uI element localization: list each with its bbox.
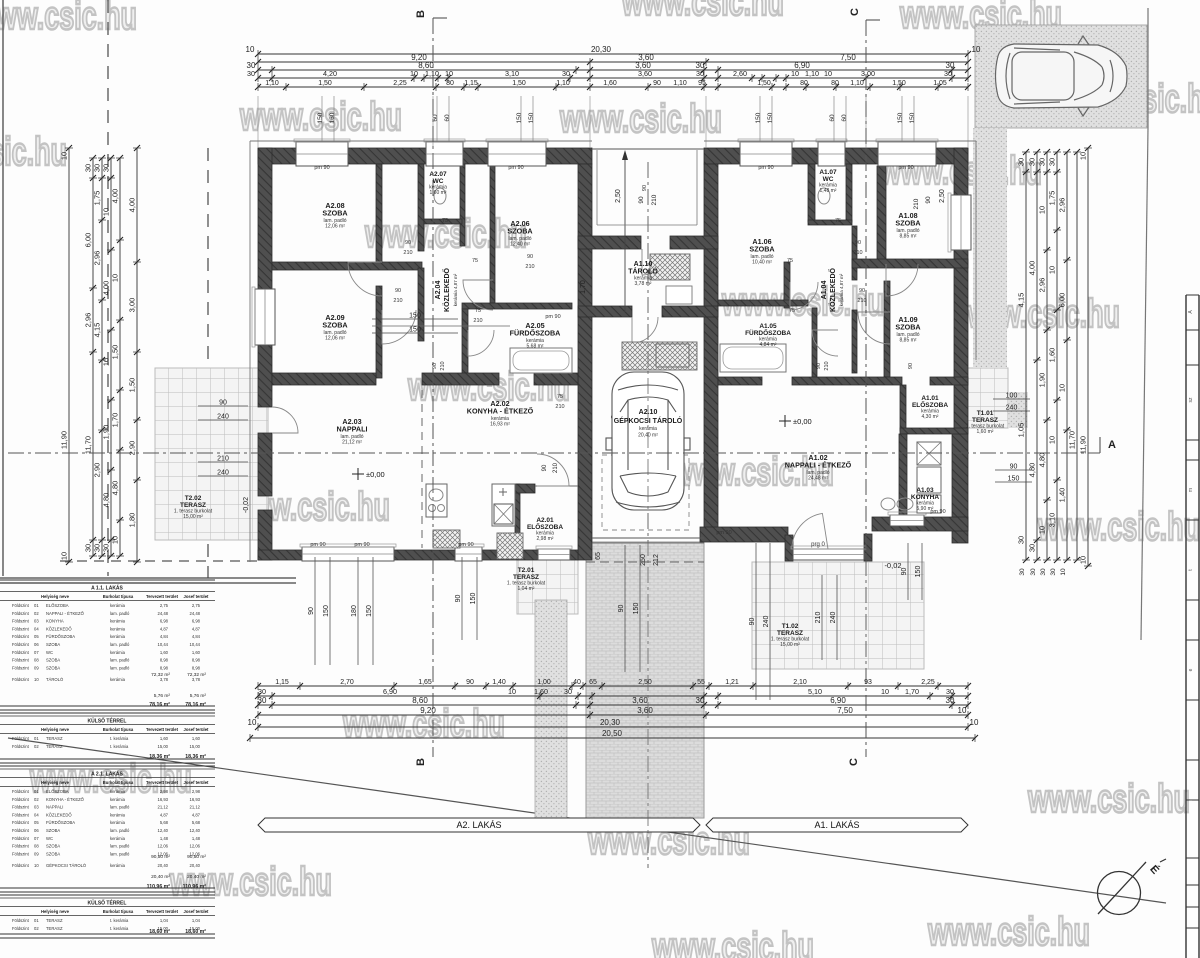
svg-text:7,50: 7,50 [837,706,853,715]
dimension chain right c3 [1038,149,1052,563]
svg-text:240: 240 [217,470,229,477]
section line A over plan [8,452,1100,454]
svg-text:4,00: 4,00 [102,281,111,296]
svg-text:lam. padló: lam. padló [110,828,130,833]
svg-text:150: 150 [470,593,477,605]
svg-text:kerámia 4,87 m²: kerámia 4,87 m² [839,273,844,306]
room label T1.02 [771,623,810,648]
dimension chain bottom row6 [247,729,978,742]
svg-text:1,50: 1,50 [318,80,332,87]
dimension chain right c1 [1017,149,1031,563]
wall A1.01 left [900,385,906,431]
svg-text:05: 05 [34,820,39,825]
svg-text:SZOBA: SZOBA [895,323,920,332]
room label A1.10 [628,261,658,287]
svg-text:1,50: 1,50 [892,80,906,87]
wall bottom A2 b [394,550,455,560]
wall WC1 left [808,164,815,222]
boundary dashed x208 [207,148,209,578]
svg-text:lam. padló: lam. padló [110,642,130,647]
wall A2 mid wall a [272,373,376,385]
svg-text:kerámia: kerámia [110,634,126,639]
svg-text:90: 90 [1010,464,1018,471]
svg-text:02: 02 [34,797,39,802]
svg-text:90: 90 [455,595,462,603]
door arc A2.06 [463,280,493,310]
svg-text:KÜLSŐ TÉRREL: KÜLSŐ TÉRREL [88,899,127,907]
svg-text:lam. padló: lam. padló [110,658,130,663]
svg-text:1,04: 1,04 [192,918,201,923]
leader pair A2 w1b [357,557,359,665]
svg-text:Burkolat típusa: Burkolat típusa [103,594,134,599]
svg-text:3,60: 3,60 [632,696,648,705]
svg-text:pm 90: pm 90 [758,165,773,171]
svg-text:11,90: 11,90 [60,431,69,449]
svg-text:Földszint: Földszint [12,677,30,682]
svg-text:Földszint: Földszint [12,611,30,616]
svg-text:10: 10 [1038,526,1047,534]
svg-text:1,60: 1,60 [534,687,548,696]
svg-text:03: 03 [34,805,39,810]
svg-text:10: 10 [1079,152,1088,160]
svg-text:Josef terület: Josef terület [184,727,210,732]
door arc A2.05 [468,330,494,356]
window top w3 [488,142,546,166]
wall A2 mid wall b [422,373,499,385]
basin A2 [599,349,601,351]
svg-text:kerámia: kerámia [110,603,126,608]
svg-text:10: 10 [111,536,120,544]
svg-text:2,60: 2,60 [733,69,747,78]
svg-text:KÖZLEKEDŐ: KÖZLEKEDŐ [46,812,72,817]
svg-text:NAPPALI: NAPPALI [46,805,63,810]
svg-text:TERASZ: TERASZ [46,736,63,741]
svg-text:1,15: 1,15 [275,679,289,686]
svg-text:A: A [1108,439,1116,451]
svg-text:04: 04 [34,626,39,631]
svg-text:1,75: 1,75 [1048,191,1057,206]
svg-text:1,10: 1,10 [805,69,819,78]
dimension chain left c1 [60,145,74,565]
svg-text:Helyiség neve: Helyiség neve [41,594,70,599]
svg-text:10: 10 [1060,568,1067,576]
svg-text:2,98: 2,98 [192,789,201,794]
svg-text:30: 30 [1019,568,1026,576]
svg-text:10: 10 [60,552,69,560]
svg-text:210: 210 [393,298,402,304]
room label T2.01 [507,567,546,592]
svg-text:10: 10 [60,152,69,160]
svg-text:150: 150 [633,603,640,615]
dimension chain bottom row4 [255,706,971,719]
svg-text:210: 210 [853,250,862,256]
svg-text:SZOBA: SZOBA [46,828,60,833]
svg-text:150: 150 [767,112,774,123]
wall bottom A2 d [570,550,578,560]
svg-text:SZOBA: SZOBA [46,665,60,670]
window bot A1 kitchen w [890,515,924,526]
svg-text:30: 30 [562,69,570,78]
svg-text:pm 90: pm 90 [354,542,369,548]
svg-text:pm 90: pm 90 [716,530,731,536]
wall A1.10 top left [578,236,641,249]
svg-text:kerámia: kerámia [110,789,126,794]
door arc A1.05 [812,330,838,356]
svg-text:A2.01: A2.01 [536,517,554,524]
svg-text:90: 90 [466,679,474,686]
svg-text:A 1.1. LAKÁS: A 1.1. LAKÁS [91,585,123,592]
svg-text:1,70: 1,70 [111,413,120,428]
svg-text:20,40 m²: 20,40 m² [151,874,170,880]
svg-text:kerámia: kerámia [110,836,126,841]
svg-text:30: 30 [258,696,267,705]
svg-text:3,60: 3,60 [637,706,653,715]
svg-text:B: B [415,10,427,18]
svg-text:Földszint: Földszint [12,812,30,817]
dimension chain right c6 [1068,149,1082,563]
svg-text:1,21: 1,21 [725,679,739,686]
wall left lower c [258,510,272,560]
svg-text:2,96: 2,96 [1058,198,1067,213]
svg-text:Josef terület: Josef terület [184,909,210,914]
dim pair 210/240 [198,461,248,463]
svg-text:2,25: 2,25 [393,80,407,87]
svg-text:11,90: 11,90 [1079,436,1088,454]
svg-text:24,48 m²: 24,48 m² [808,475,828,481]
svg-text:15,00 m²: 15,00 m² [780,642,800,648]
svg-text:Helyiség neve: Helyiség neve [41,780,70,785]
svg-text:4,84: 4,84 [192,634,201,639]
dimension chain top row3 [247,61,971,74]
wall A1.10 bottom left [578,306,632,317]
door arc A1.06 [790,282,818,310]
svg-text:TÁROLÓ: TÁROLÓ [628,267,658,276]
svg-text:90: 90 [855,240,861,246]
svg-text:www.csic.hu: www.csic.hu [559,97,722,141]
right lot boundary [1141,128,1148,640]
svg-text:90: 90 [638,196,645,204]
svg-text:7,50: 7,50 [840,53,856,62]
svg-text:A1.07: A1.07 [819,169,837,176]
svg-text:Josef terület: Josef terület [184,594,210,599]
svg-text:Tervezett terület: Tervezett terület [146,909,179,914]
svg-text:2,25: 2,25 [921,679,935,686]
svg-text:Földszint: Földszint [12,658,30,663]
svg-text:Burkolat típusa: Burkolat típusa [103,909,134,914]
svg-text:3,10: 3,10 [505,69,519,78]
svg-text:30: 30 [84,164,93,172]
svg-text:t. kerámia: t. kerámia [110,736,129,741]
dimension chain left c6 [128,145,142,565]
svg-text:NAPPALI - ÉTKEZŐ: NAPPALI - ÉTKEZŐ [785,461,852,470]
wall A1 corridor left lower [812,308,817,377]
level marker A1 [779,420,791,422]
garage axis over plan [647,162,649,868]
car top-right (plan view, horizontal) [996,36,1128,116]
svg-text:75: 75 [557,394,563,400]
svg-text:05: 05 [34,634,39,639]
svg-text:20,30: 20,30 [600,718,621,727]
svg-text:1,50: 1,50 [757,80,771,87]
svg-text:WC: WC [46,650,53,655]
svg-text:lam. padló: lam. padló [110,805,130,810]
svg-text:C: C [848,758,860,766]
room label A2.02 [467,399,534,427]
svg-text:75: 75 [472,258,478,264]
svg-text:1,10: 1,10 [425,69,439,78]
svg-text:10: 10 [102,358,111,366]
svg-text:1,48 m²: 1,48 m² [820,188,837,194]
svg-text:150: 150 [323,605,330,617]
svg-text:kerámia: kerámia [110,820,126,825]
svg-text:06: 06 [34,642,39,647]
svg-text:4,84: 4,84 [160,634,169,639]
wall bottom A2 c [482,550,538,560]
svg-text:8,98: 8,98 [192,665,201,670]
wall garage left [578,164,592,560]
svg-text:8,98: 8,98 [192,658,201,663]
svg-text:Burkolat típusa: Burkolat típusa [103,727,134,732]
svg-text:FÜRDŐSZOBA: FÜRDŐSZOBA [510,329,561,338]
svg-text:08: 08 [34,658,39,663]
svg-text:10: 10 [102,208,111,216]
svg-text:210: 210 [824,361,830,370]
svg-text:30: 30 [946,696,955,705]
svg-text:110,96 m²: 110,96 m² [147,884,171,890]
svg-text:09: 09 [34,665,39,670]
svg-text:90: 90 [618,605,625,613]
wall A1.05 top [718,300,808,306]
wall A2.05 top [462,303,572,309]
svg-text:1,00: 1,00 [537,679,551,686]
leader pair A1 slider [755,543,757,700]
svg-text:1,04 m²: 1,04 m² [518,586,535,592]
svg-text:kerámia: kerámia [110,626,126,631]
wall right lower [952,432,968,543]
svg-text:sz: sz [1188,397,1194,403]
dimension chain bottom row3 [255,696,971,709]
wall A1.08/A1.09 divider [852,259,968,268]
svg-text:2,10: 2,10 [793,679,807,686]
svg-text:Földszint: Földszint [12,626,30,631]
door arc A2.09 [382,310,416,344]
wall A1.06 right lower [784,262,790,308]
svg-text:10: 10 [34,863,39,868]
svg-text:2,50: 2,50 [939,189,946,203]
svg-text:5,68: 5,68 [160,820,169,825]
garage driveway [586,542,704,818]
room label A2.06 [507,219,532,247]
svg-text:90: 90 [542,464,548,471]
svg-text:pm 90: pm 90 [508,165,523,171]
window top w5 [818,142,845,166]
svg-text:3,10: 3,10 [1048,513,1057,528]
kitchen counter A1 [917,442,941,465]
svg-text:4,80: 4,80 [102,493,111,508]
niche dim leader [624,153,626,312]
svg-text:kerámia: kerámia [110,677,126,682]
svg-text:Josef terület: Josef terület [184,780,210,785]
wall bottom A2 a [258,550,302,560]
wc fixtures [434,188,446,204]
window top w2 [426,142,463,166]
svg-text:11,70: 11,70 [84,436,93,454]
svg-text:06: 06 [34,828,39,833]
room label A2.01 [527,517,563,542]
window bot A2 w1 [302,547,394,561]
wall A1 corridor right b [852,310,857,373]
door arc A1.10 door upper [642,249,654,275]
dimension chain top row2 [255,53,971,66]
svg-text:210: 210 [857,298,866,304]
svg-text:10: 10 [791,69,799,78]
wall bottom A1 jog left [785,535,793,561]
svg-text:Földszint: Földszint [12,634,30,639]
svg-text:A1.10: A1.10 [634,261,653,268]
svg-text:ELŐSZOBA: ELŐSZOBA [46,789,69,794]
svg-text:30: 30 [1017,158,1026,166]
room label A1.09 [895,315,920,343]
svg-text:90,50 m²: 90,50 m² [187,854,206,860]
svg-text:30: 30 [696,696,705,705]
apartment band A2 [258,818,700,832]
dimension chain bottom row5 [248,718,979,731]
svg-text:-0,02: -0,02 [884,561,901,570]
svg-text:210: 210 [473,318,482,324]
table A2 lakas [0,766,215,892]
room label A1.01 [912,395,948,420]
dimension chain top row4 [247,69,971,82]
svg-text:kerámia 4,87 m²: kerámia 4,87 m² [453,273,458,306]
svg-text:A2.04: A2.04 [435,281,442,300]
svg-text:KONYHA - ÉTKEZŐ: KONYHA - ÉTKEZŐ [467,407,534,416]
svg-text:4,80: 4,80 [1038,453,1047,468]
svg-text:Földszint: Földszint [12,836,30,841]
dimension chain left c3 [93,155,107,559]
svg-text:2,96: 2,96 [1038,278,1047,293]
svg-text:2,75: 2,75 [160,603,169,608]
dim pair left 150/150 [372,318,458,320]
room label A2.08 [322,201,347,229]
svg-text:1,10: 1,10 [265,80,279,87]
svg-text:4,87: 4,87 [160,812,169,817]
car in garage (plan view, vertical) [606,372,690,510]
svg-text:1,50: 1,50 [512,80,526,87]
svg-text:1,60: 1,60 [192,650,201,655]
svg-text:12,40: 12,40 [158,828,169,833]
svg-text:150: 150 [1008,476,1020,483]
svg-text:kerámia: kerámia [110,812,126,817]
svg-text:1,48: 1,48 [160,836,169,841]
svg-text:150: 150 [516,112,523,123]
dimension chain left c5 [111,155,125,559]
svg-text:10: 10 [1048,436,1057,444]
svg-text:Földszint: Földszint [12,918,30,923]
svg-text:1,04: 1,04 [160,918,169,923]
svg-text:210: 210 [525,264,534,270]
svg-text:212: 212 [653,554,660,566]
svg-text:210: 210 [651,194,658,205]
svg-text:1,50: 1,50 [128,378,137,393]
svg-text:A1.03: A1.03 [916,487,934,494]
svg-text:Földszint: Földszint [12,805,30,810]
svg-text:KÜLSŐ TÉRREL: KÜLSŐ TÉRREL [88,717,127,725]
extension lines top windows [257,96,259,148]
svg-text:150: 150 [755,112,762,123]
svg-text:15,00: 15,00 [190,744,201,749]
svg-text:10: 10 [410,69,418,78]
svg-text:GÉPKOCSI TÁROLÓ: GÉPKOCSI TÁROLÓ [46,863,87,868]
window right w [951,195,971,250]
svg-text:t. kerámia: t. kerámia [110,926,129,931]
svg-text:24,48: 24,48 [158,611,169,616]
eaves line left [249,141,251,562]
svg-text:10,40 m²: 10,40 m² [752,259,772,265]
room label A1.05 [745,323,791,348]
svg-text:150: 150 [528,112,535,123]
svg-text:T1.02: T1.02 [782,623,799,630]
svg-text:150: 150 [409,313,421,320]
svg-text:01: 01 [34,918,39,923]
svg-text:www.csic.hu: www.csic.hu [0,130,67,174]
svg-text:SZOBA: SZOBA [322,209,347,218]
svg-text:180: 180 [351,605,358,617]
svg-text:SZOBA: SZOBA [46,844,60,849]
svg-text:B: B [415,758,427,766]
door arc A2.08 [348,262,382,296]
svg-text:pm 90: pm 90 [545,314,560,320]
door arc A1 entry [792,513,828,549]
lot boundary left [2,0,4,576]
terrace T1.01 [963,368,1008,428]
svg-text:15,00: 15,00 [158,744,169,749]
wall garage right [704,164,718,540]
svg-text:02: 02 [34,744,39,749]
svg-text:1,60: 1,60 [192,736,201,741]
svg-text:75: 75 [789,308,795,314]
svg-text:01: 01 [34,736,39,741]
svg-text:90,50 m²: 90,50 m² [151,854,170,860]
svg-text:8,98: 8,98 [160,658,169,663]
wall WC1 bottom [808,220,852,225]
room label A1.06 [749,237,774,265]
svg-text:1,70: 1,70 [580,280,587,294]
svg-text:1,40: 1,40 [492,679,506,686]
svg-text:10: 10 [824,69,832,78]
wall bottom A1 a [700,527,788,542]
eaves line top [250,140,592,142]
wall A1.09 left [884,281,890,377]
wall A1 mid wall a [718,377,762,385]
svg-text:1,60 m²: 1,60 m² [977,429,994,435]
svg-text:10: 10 [445,69,453,78]
svg-text:Helyiség neve: Helyiség neve [41,727,70,732]
svg-text:12,06: 12,06 [158,844,169,849]
svg-text:5,76 m²: 5,76 m² [190,693,207,699]
svg-text:4,00: 4,00 [128,198,137,213]
wall WC1 right [846,164,852,222]
svg-text:Földszint: Földszint [12,844,30,849]
svg-text:150: 150 [317,112,324,123]
svg-text:2,98: 2,98 [160,789,169,794]
table A2 terasz [0,895,215,938]
svg-text:FÜRDŐSZOBA: FÜRDŐSZOBA [46,820,75,825]
svg-text:1,50: 1,50 [111,345,120,360]
svg-text:t. kerámia: t. kerámia [110,918,129,923]
svg-text:Földszint: Földszint [12,797,30,802]
svg-text:SZOBA: SZOBA [46,851,60,856]
svg-text:6,00: 6,00 [1058,293,1067,308]
